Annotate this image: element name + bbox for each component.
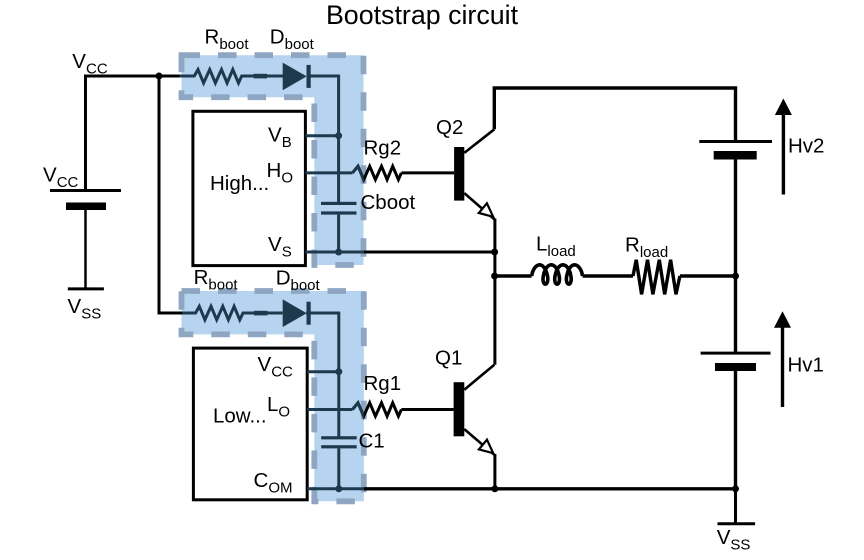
diode Dboot upper <box>283 63 311 91</box>
svg-text:VCC: VCC <box>43 164 79 192</box>
wire Vs to emitter node <box>364 251 495 254</box>
svg-text:C1: C1 <box>359 430 385 453</box>
wire diode to Vb rail <box>307 76 339 204</box>
node emitter-rail junction <box>491 485 498 492</box>
svg-text:Rg1: Rg1 <box>364 372 402 395</box>
terminal Vss left <box>68 287 104 290</box>
svg-text:Q1: Q1 <box>435 347 462 370</box>
node Vcc pin junction <box>335 368 342 375</box>
transistor Q2 <box>454 129 495 220</box>
wire Vcc top horizontal <box>86 76 182 191</box>
wire load line left <box>495 274 532 277</box>
svg-text:Lload: Lload <box>536 233 576 261</box>
box low side driver <box>193 348 307 500</box>
wire Vcc to lower driver <box>159 76 182 313</box>
svg-text:Rboot: Rboot <box>205 26 250 54</box>
arrow Hv1 <box>774 311 791 407</box>
svg-text:Hv1: Hv1 <box>788 354 824 377</box>
svg-text:Dboot: Dboot <box>270 26 315 54</box>
highlight band upper (bootstrap path) <box>182 55 364 265</box>
wire Rg1 to Q1 base <box>401 408 453 411</box>
pin Com <box>254 469 364 497</box>
resistor Rg1 <box>352 403 401 416</box>
svg-text:Q2: Q2 <box>436 116 463 139</box>
wire Q2 collector to top rail <box>494 88 735 142</box>
node load line left junction <box>491 273 498 280</box>
wire Rg2 to Q2 base <box>401 171 454 174</box>
inductor Lload <box>532 265 583 284</box>
pin Ho <box>267 159 353 187</box>
svg-text:Dboot: Dboot <box>276 267 321 295</box>
highlight band lower (bootstrap path) <box>182 291 364 501</box>
resistor Rboot upper <box>180 70 284 84</box>
svg-text:VSS: VSS <box>717 526 751 554</box>
wire Cboot to Vs <box>337 215 340 252</box>
svg-text:High...: High... <box>210 172 269 195</box>
svg-text:Bootstrap circuit: Bootstrap circuit <box>326 0 519 30</box>
battery Vcc left <box>50 191 121 289</box>
resistor Rboot lower <box>182 306 283 320</box>
node bottom rail right junction <box>732 485 739 492</box>
svg-text:Cboot: Cboot <box>361 191 416 214</box>
wire C1 to Com <box>337 448 340 488</box>
resistor Rg2 <box>352 166 401 179</box>
wire to Vss right <box>734 489 737 524</box>
node load line right junction <box>732 273 739 280</box>
wire Q1 emitter down <box>493 454 496 489</box>
svg-text:Rboot: Rboot <box>194 266 239 294</box>
pin Vb <box>268 123 339 151</box>
diode Dboot lower <box>283 299 311 327</box>
pin Vs <box>268 233 364 260</box>
pin Lo <box>267 393 352 421</box>
transistor Q1 <box>454 365 495 456</box>
svg-text:Rload: Rload <box>625 234 668 262</box>
resistor Rload <box>633 260 680 295</box>
capacitor Cboot <box>321 202 357 215</box>
battery Hv1 <box>701 276 771 489</box>
node Com junction <box>335 485 342 492</box>
wire diode to Vcc rail lower <box>306 313 339 438</box>
node Vs junction <box>335 249 342 256</box>
node Vs-emitter junction <box>491 249 498 256</box>
box high side driver <box>193 111 306 265</box>
wire segment thick lower <box>254 311 268 316</box>
svg-text:VCC: VCC <box>72 50 108 78</box>
wire Rload to right rail <box>680 274 736 277</box>
pin Vcc <box>258 353 339 381</box>
battery Hv2 <box>699 142 772 277</box>
arrow Hv2 <box>775 99 792 195</box>
node Vb junction <box>335 132 342 139</box>
svg-text:Low...: Low... <box>213 404 267 427</box>
wire Q2 emitter down <box>493 219 496 365</box>
node Vcc junction <box>156 73 163 80</box>
svg-text:VSS: VSS <box>68 295 102 323</box>
wire bottom rail <box>364 487 736 490</box>
capacitor C1 <box>321 436 357 448</box>
svg-text:Hv2: Hv2 <box>788 134 824 157</box>
terminal Vss right <box>718 522 756 525</box>
wire segment thick upper <box>254 74 268 79</box>
svg-text:Rg2: Rg2 <box>364 136 402 159</box>
wire inductor to Rload <box>583 274 633 277</box>
